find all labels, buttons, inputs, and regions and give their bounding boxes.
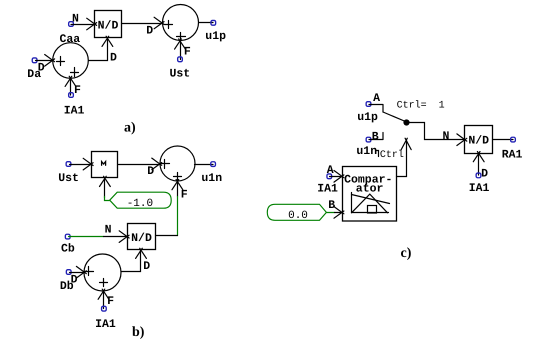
svg-text:D: D (146, 25, 153, 38)
wire gain out to summer3 (119, 164, 160, 166)
port N (a) (69, 22, 74, 27)
svg-text:A: A (327, 164, 334, 177)
plus bottom (U3) (174, 173, 182, 181)
wire summer1 out to N/D bottom (89, 39, 108, 61)
arrowhead into summer3 bottom (172, 180, 183, 190)
port u1n (b) (211, 162, 216, 167)
svg-text:-1.0: -1.0 (127, 198, 153, 210)
terminal B bracket (369, 133, 383, 140)
wire summer4 out to N/D (b) bottom (122, 251, 141, 272)
wire summer1 bottom F (70, 79, 72, 96)
port Da (32, 58, 37, 63)
plus left (U1) (57, 57, 65, 66)
svg-text:c): c) (401, 246, 412, 261)
wire A to comparator (330, 176, 343, 178)
svg-text:N: N (72, 13, 79, 26)
wire dot to N/D (c) (407, 123, 465, 140)
port Cb (65, 234, 70, 239)
pill -1.0 (110, 192, 172, 208)
port Ust (a) (178, 57, 183, 62)
svg-text:IA1: IA1 (95, 318, 116, 331)
svg-text:0.0: 0.0 (288, 210, 308, 222)
summer U1 circle (53, 43, 89, 79)
arrowhead into summer3 left (152, 158, 162, 170)
svg-text:ator: ator (356, 182, 384, 195)
port IA1 (a) (69, 93, 74, 98)
wire Ust to summer2 bottom (180, 41, 182, 60)
svg-text:u1p: u1p (357, 111, 378, 124)
arrowhead into N/D (b) left (119, 231, 129, 243)
svg-text:Db: Db (60, 280, 74, 293)
svg-text:Ctrl: Ctrl (380, 149, 404, 161)
wire N/D (a) out to summer2 (122, 23, 163, 25)
arrowhead into summer2 left (154, 17, 164, 29)
ctrl arrow wire from comparator (397, 141, 407, 177)
N/D block (b) (128, 224, 156, 250)
svg-text:F: F (74, 84, 81, 97)
svg-text:Ust: Ust (170, 68, 191, 81)
svg-text:N: N (105, 224, 112, 237)
svg-text:F: F (107, 295, 114, 308)
plus left (U2) (165, 21, 173, 29)
wire N/D (b) out (156, 235, 178, 237)
port A comparator (327, 174, 332, 179)
comparator icon axes (352, 193, 389, 213)
port Ust (b) (66, 162, 71, 167)
summer U3 circle (160, 146, 195, 181)
svg-text:N/D: N/D (98, 20, 119, 33)
svg-text:Ust: Ust (58, 172, 79, 185)
arrowhead into comparator A (334, 171, 344, 183)
comparator block (343, 167, 397, 222)
arrowhead into summer4 left (76, 266, 86, 278)
svg-text:Da: Da (27, 68, 41, 81)
svg-text:D: D (110, 51, 117, 64)
wire Da to summer1 (36, 60, 53, 62)
plus bottom (U4) (100, 279, 108, 287)
plus left (U3) (161, 160, 170, 169)
svg-text:N/D: N/D (468, 135, 489, 148)
port Db (66, 270, 71, 275)
port u1p (a) (211, 20, 216, 25)
svg-text:N: N (443, 130, 450, 143)
svg-text:B: B (328, 199, 335, 212)
black wire into N/D (b) left (104, 236, 128, 238)
arrowhead into N/D (c) left (457, 134, 467, 146)
green wire F net (177, 197, 179, 236)
wire Ust to gain (70, 164, 92, 166)
arrowhead into comparator B (334, 207, 344, 219)
green wire 0.0 to B (327, 212, 335, 214)
wire summer3 out (195, 164, 214, 166)
green wire Cb (69, 236, 104, 238)
arrowhead into N/D (a) left (87, 18, 97, 30)
green hook to -1.0 pill (105, 197, 110, 201)
svg-text:u1p: u1p (205, 30, 226, 43)
port IA1 (b) (102, 306, 107, 311)
comparator icon ramp line (352, 195, 390, 204)
svg-text:u1n: u1n (201, 172, 222, 185)
svg-text:Caa: Caa (60, 33, 81, 46)
arrowhead into N/D (c) bottom (473, 152, 484, 162)
wire IA1 to summer4 bottom (103, 291, 105, 309)
gain block (92, 152, 118, 178)
svg-text:u1n: u1n (356, 145, 377, 158)
svg-text:RA1: RA1 (502, 148, 523, 161)
svg-text:D: D (147, 165, 154, 178)
black wire into comparator B (335, 212, 343, 214)
wire Db to summer4 (70, 272, 85, 274)
pill 0.0 (267, 204, 326, 220)
gain bottom wire (104, 179, 106, 198)
svg-text:IA1: IA1 (469, 182, 490, 195)
gain glyph (102, 162, 106, 166)
arrowhead into gain left (83, 158, 93, 170)
svg-text:D: D (481, 168, 488, 181)
terminal A bracket (369, 105, 383, 113)
svg-text:IA1: IA1 (317, 183, 338, 196)
arrowhead into N/D (a) bottom (102, 36, 113, 46)
svg-text:Ctrl= 1: Ctrl= 1 (397, 100, 445, 112)
svg-text:N/D: N/D (131, 232, 152, 245)
arrowhead into summer2 bottom (175, 39, 186, 49)
svg-text:IA1: IA1 (64, 105, 85, 118)
summer U4 circle (84, 254, 121, 291)
N/D block (a) (95, 11, 122, 38)
port RA1 (511, 137, 516, 142)
arrowhead into gain bottom (100, 176, 111, 186)
comparator icon triangle (352, 194, 388, 213)
port A u1p (c) (366, 102, 371, 107)
arrowhead into summer4 bottom (98, 289, 109, 299)
arrowhead into summer1 bottom (65, 76, 76, 86)
ctrl arrowhead up (401, 138, 411, 149)
wire summer2 out (199, 22, 214, 24)
svg-text:F: F (184, 46, 191, 59)
comparator icon box (368, 206, 377, 214)
N/D block (c) (465, 126, 493, 154)
wire IA1 to N/D (c) bottom (478, 154, 480, 176)
wire N/D (c) out (493, 139, 514, 141)
junction dot (403, 119, 409, 125)
wire N to N/D (a) (71, 24, 95, 26)
black stub below summer3 (177, 182, 179, 197)
switch lever (383, 112, 406, 122)
svg-text:b): b) (132, 325, 145, 340)
plus left (U4) (85, 267, 94, 276)
svg-text:D: D (143, 260, 150, 273)
arrowhead into N/D (b) bottom (136, 248, 147, 258)
plus bottom (U2) (177, 33, 186, 41)
summer U2 circle (163, 5, 199, 41)
svg-text:B: B (372, 130, 379, 143)
svg-text:a): a) (124, 121, 136, 136)
port B u1n (c) (366, 137, 371, 142)
svg-text:Cb: Cb (61, 243, 75, 256)
ctrl pin bracket (377, 151, 379, 157)
svg-text:A: A (373, 92, 380, 105)
port IA1 (c) (476, 173, 481, 178)
svg-text:F: F (181, 189, 188, 202)
arrowhead into summer1 left (45, 55, 55, 67)
plus bottom (U1) (71, 68, 79, 77)
